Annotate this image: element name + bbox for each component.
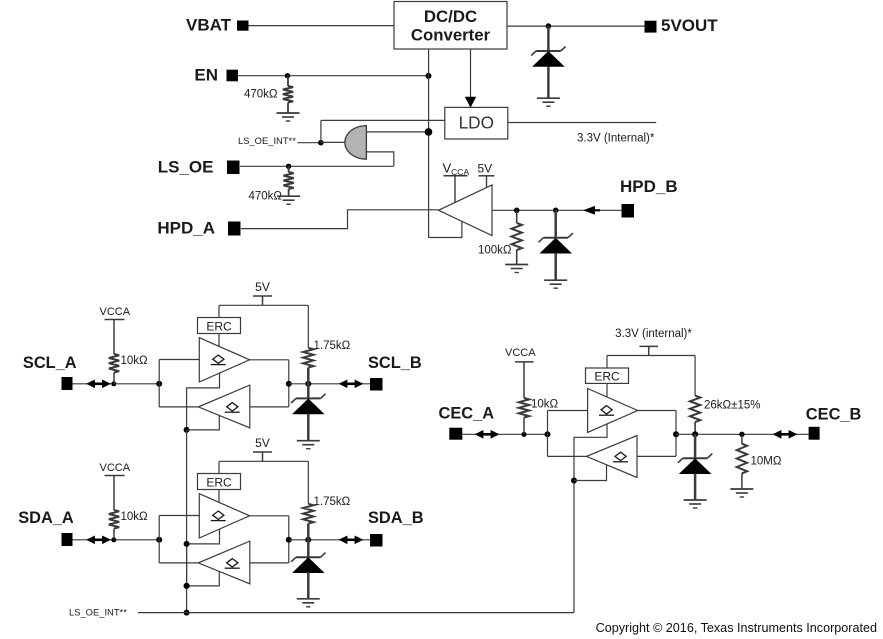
svg-text:5V: 5V: [255, 280, 270, 294]
svg-text:VCCA: VCCA: [505, 347, 536, 359]
svg-text:LS_OE_INT**: LS_OE_INT**: [238, 135, 296, 146]
svg-text:ERC: ERC: [594, 369, 620, 383]
svg-text:LS_OE: LS_OE: [158, 157, 214, 176]
svg-text:5V: 5V: [255, 436, 270, 450]
svg-text:470kΩ: 470kΩ: [244, 89, 278, 101]
svg-text:SDA_B: SDA_B: [368, 509, 424, 527]
svg-text:26kΩ±15%: 26kΩ±15%: [704, 400, 760, 412]
svg-text:10MΩ: 10MΩ: [751, 456, 782, 468]
svg-text:SDA_A: SDA_A: [18, 509, 74, 527]
svg-text:3.3V (Internal)*: 3.3V (Internal)*: [577, 133, 655, 145]
svg-text:10kΩ: 10kΩ: [121, 355, 149, 367]
svg-text:DC/DC: DC/DC: [424, 7, 477, 26]
svg-text:5VOUT: 5VOUT: [661, 16, 718, 35]
svg-text:LS_OE_INT**: LS_OE_INT**: [69, 606, 127, 617]
svg-text:VCCA: VCCA: [100, 306, 131, 318]
svg-text:10kΩ: 10kΩ: [531, 398, 559, 410]
svg-text:Converter: Converter: [411, 26, 491, 45]
svg-text:1.75kΩ: 1.75kΩ: [314, 340, 351, 352]
svg-text:10kΩ: 10kΩ: [121, 511, 149, 523]
svg-text:HPD_B: HPD_B: [620, 177, 678, 196]
svg-text:ERC: ERC: [206, 319, 232, 333]
svg-text:5V: 5V: [478, 162, 493, 176]
svg-text:VCCA: VCCA: [100, 462, 131, 474]
svg-text:CEC_B: CEC_B: [806, 405, 862, 423]
svg-text:3.3V (internal)*: 3.3V (internal)*: [615, 328, 692, 340]
svg-text:CEC_A: CEC_A: [439, 405, 495, 423]
svg-text:SCL_B: SCL_B: [368, 354, 422, 372]
svg-text:1.75kΩ: 1.75kΩ: [314, 496, 351, 508]
svg-text:SCL_A: SCL_A: [23, 354, 77, 372]
svg-text:EN: EN: [194, 65, 218, 84]
svg-text:ERC: ERC: [206, 475, 232, 489]
svg-text:100kΩ: 100kΩ: [478, 245, 512, 257]
svg-text:HPD_A: HPD_A: [157, 219, 215, 238]
svg-text:Copyright © 2016, Texas Instru: Copyright © 2016, Texas Instruments Inco…: [596, 621, 877, 635]
svg-text:VBAT: VBAT: [186, 15, 232, 34]
svg-text:LDO: LDO: [459, 113, 494, 133]
